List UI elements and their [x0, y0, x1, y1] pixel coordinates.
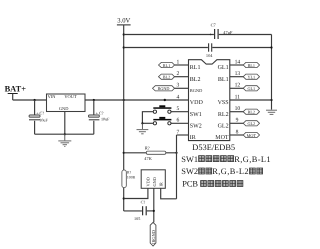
svg-text:9: 9: [236, 118, 239, 124]
svg-text:+: +: [209, 33, 212, 38]
junction dot top rail: [123, 33, 125, 35]
junction dot second rail: [123, 46, 125, 48]
svg-text:VDD: VDD: [146, 177, 151, 186]
junction dot VDD of IR receiver: [123, 197, 125, 199]
net flag BGND (pin3): [153, 86, 175, 91]
svg-text:SW1: SW1: [181, 155, 198, 164]
net flag YL1 (pin13): [243, 74, 259, 79]
junction dot C2 branch: [93, 99, 95, 101]
svg-text:VIN: VIN: [48, 94, 57, 99]
wire IR receiver GND pin: [153, 188, 155, 222]
net flag GL1 (pin12): [243, 86, 259, 91]
junction dot at C1 branch: [34, 99, 36, 101]
note CJK glyphs line4 (board layout): [201, 181, 243, 187]
svg-text:11: 11: [235, 94, 241, 100]
resistor R? 47K: [124, 145, 177, 161]
svg-text:3.0V: 3.0V: [117, 17, 130, 24]
svg-text:10uF: 10uF: [101, 116, 110, 121]
svg-text:4: 4: [177, 94, 180, 100]
svg-text:BL2: BL2: [163, 75, 170, 80]
svg-text:SW2: SW2: [181, 167, 198, 176]
svg-text:R?: R?: [145, 145, 150, 150]
svg-text:PCB: PCB: [182, 180, 198, 189]
svg-text:GND: GND: [59, 106, 69, 111]
net flag BL2 (pin2): [159, 74, 175, 79]
svg-text:IR: IR: [159, 182, 164, 186]
svg-text:GL1: GL1: [247, 86, 255, 91]
svg-text:14: 14: [235, 59, 241, 65]
svg-text:MOT: MOT: [247, 133, 257, 138]
junction dot on VDD wire: [164, 99, 166, 101]
svg-text:GND: GND: [152, 177, 157, 186]
wire SW1 left to ground stem: [142, 112, 153, 124]
wire regulator GND to ground rail: [64, 112, 66, 135]
switch SW1 (tact): [153, 105, 171, 113]
capacitor C2 10uF (output cap): [88, 100, 110, 134]
net flag IRGND (vertical): [150, 222, 156, 246]
switch SW2 (tact): [153, 117, 171, 125]
junction dot switches ground: [141, 122, 143, 124]
wire IR receiver IR pin: [161, 188, 177, 199]
note CJK glyphs line2 (kongzhi mada he): [199, 156, 234, 162]
wire below 100R: [123, 188, 125, 211]
svg-text:105: 105: [134, 216, 140, 221]
svg-text:BGND: BGND: [158, 86, 170, 91]
capacitor C7 47uF: [209, 23, 233, 39]
svg-text:RL1: RL1: [163, 63, 170, 68]
svg-text:VDD: VDD: [190, 100, 204, 106]
ground symbol (main): [58, 134, 71, 146]
voltage regulator U? (VIN/VOUT/GND): [47, 94, 86, 112]
junction dot 47K right / IR line: [175, 152, 177, 154]
power 3.0V: [117, 17, 131, 170]
svg-text:47K: 47K: [144, 156, 152, 161]
svg-text:6: 6: [177, 118, 180, 124]
svg-text:VOUT: VOUT: [64, 94, 77, 99]
svg-text:VSS: VSS: [218, 100, 229, 106]
note CJK glyphs line3 (kongzhi / dengshan): [199, 168, 263, 174]
ground symbol (right, VSS): [266, 110, 277, 114]
junction dot 105/GND line: [153, 210, 155, 212]
IC pin numbers right: [235, 59, 241, 135]
wire second rail: [124, 47, 208, 49]
svg-text:RL1: RL1: [190, 65, 201, 71]
svg-text:R?: R?: [127, 171, 132, 175]
svg-text:RL2: RL2: [248, 110, 255, 115]
wire IR line up to pin7: [176, 135, 178, 199]
svg-text:47uF: 47uF: [223, 30, 233, 35]
svg-text:C?: C?: [141, 200, 146, 205]
IC U1 (main controller): [189, 60, 230, 141]
IC right pin stubs: [230, 65, 244, 135]
svg-text:D53E/EDB5: D53E/EDB5: [192, 143, 235, 152]
capacitor 104: [206, 43, 213, 58]
net flag GL2 (pin9): [243, 121, 259, 126]
net flag BL1 (pin14): [243, 62, 259, 67]
svg-text:+ C?: + C?: [36, 110, 44, 115]
svg-text:8: 8: [236, 129, 239, 135]
svg-text:10uF: 10uF: [39, 118, 48, 123]
svg-text:C7: C7: [211, 23, 217, 28]
svg-text:GL1: GL1: [218, 65, 229, 71]
ground symbol (switches): [137, 123, 149, 134]
svg-text:104: 104: [206, 53, 213, 58]
svg-text:BL1: BL1: [248, 63, 255, 68]
net flag MOT (pin8): [243, 132, 259, 137]
svg-text:IRGND: IRGND: [151, 230, 156, 244]
svg-text:2: 2: [177, 71, 180, 77]
net flag RL1 (pin1): [159, 62, 175, 67]
svg-text:MOT: MOT: [215, 135, 229, 141]
wire SW2 left to ground stem: [142, 122, 153, 124]
junction dot bus/second rail: [270, 46, 272, 48]
svg-text:SW2: SW2: [190, 124, 202, 130]
svg-text:10: 10: [235, 106, 241, 112]
svg-text:BL2: BL2: [190, 77, 201, 83]
svg-text:GL2: GL2: [247, 121, 255, 126]
svg-text:IR: IR: [190, 135, 196, 141]
svg-text:YL1: YL1: [247, 75, 255, 80]
wire to 105 cap: [124, 210, 142, 212]
IC left pin stubs: [171, 65, 189, 135]
svg-text:BGND: BGND: [190, 88, 202, 93]
wire VSS pin11 to bus: [230, 99, 272, 101]
svg-text:13: 13: [235, 71, 241, 77]
resistor R? 100R: [122, 170, 136, 188]
svg-text:GL2: GL2: [218, 124, 229, 130]
IC pin names right inside: [215, 65, 229, 141]
wire top rail: [124, 34, 214, 36]
svg-text:+ C?: + C?: [96, 111, 104, 116]
svg-text:RL2: RL2: [218, 112, 229, 118]
junction dot 47K left: [123, 152, 125, 154]
net flag RL2 (pin10): [243, 109, 259, 114]
wire ground rail: [35, 133, 94, 135]
svg-text:R,G,B-L1: R,G,B-L1: [234, 155, 271, 164]
svg-text:1: 1: [177, 59, 180, 65]
IR receiver U?: [141, 170, 165, 189]
wire IR receiver VDD pin: [124, 188, 148, 198]
svg-text:BL1: BL1: [218, 77, 229, 83]
svg-text:3: 3: [177, 83, 180, 89]
svg-text:100R: 100R: [127, 176, 136, 180]
junction dot 3.0V line: [123, 99, 125, 101]
wire VOUT to VDD rail: [85, 99, 188, 101]
capacitor C1 10uF (input cap): [29, 100, 48, 134]
svg-text:7: 7: [177, 129, 180, 135]
wire right bus down to ground: [271, 35, 273, 110]
svg-text:12: 12: [235, 83, 241, 89]
node BAT+ terminal: [5, 85, 27, 100]
capacitor C? 105: [134, 200, 154, 221]
IC pin numbers left: [177, 59, 180, 135]
svg-text:BAT+: BAT+: [5, 85, 27, 94]
IC pin names left inside: [190, 65, 204, 141]
svg-text:5: 5: [177, 106, 180, 112]
svg-text:R,G,B-L2: R,G,B-L2: [212, 167, 249, 176]
svg-text:SW1: SW1: [190, 112, 202, 118]
junction dot GND rail: [64, 133, 66, 135]
junction dot bus/VSS: [270, 99, 272, 101]
wire BAT+ to VIN: [13, 99, 47, 101]
